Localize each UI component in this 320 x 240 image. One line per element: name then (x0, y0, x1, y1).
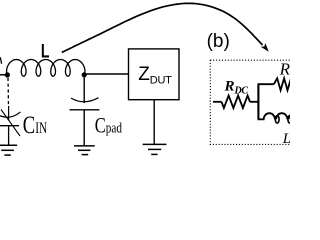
dashed model box (210, 60, 306, 144)
wire node B down to C_pad (83, 75, 85, 103)
svg-text:L: L (282, 131, 290, 147)
inductor L coil (7, 60, 85, 77)
wire C_pad to ground (83, 110, 85, 146)
node A left junction dot (5, 72, 10, 77)
inductor L model coil (264, 113, 275, 119)
wire node B to Z_DUT box (84, 73, 128, 75)
capacitor C_pad straight plate (70, 109, 100, 111)
Z_DUT box (129, 49, 180, 100)
arrowhead (261, 43, 269, 52)
wire Z_DUT box to ground (153, 100, 155, 145)
wire into R_DC (213, 101, 222, 103)
resistor R zigzag (274, 78, 291, 90)
wire R_DC to junction bar (250, 101, 258, 103)
wire to resistor R (258, 83, 274, 85)
junction bar (257, 84, 259, 118)
wire C_IN to ground (8, 126, 10, 146)
ground under Z_DUT (143, 144, 167, 154)
capacitor C_IN straight plate (0, 125, 19, 127)
capacitor C_pad curved plate (71, 98, 99, 102)
wire left stub into node (0, 74, 7, 76)
curved arrow from circuit to model (62, 3, 263, 52)
capacitor C_IN curved plate (0, 112, 21, 117)
svg-text:L: L (41, 40, 50, 62)
wire into C_IN top plate (8, 106, 10, 121)
variable capacitor arrow through C_IN (1, 110, 20, 137)
node B right junction dot (82, 72, 87, 77)
dashed wire node A to C_IN (7, 78, 10, 107)
resistor R_DC zigzag (222, 96, 251, 108)
ground under C_IN (0, 145, 17, 155)
wire cut-off mark at left edge (0, 57, 1, 64)
ground under C_pad (74, 146, 95, 155)
svg-text:(b): (b) (207, 31, 230, 52)
wire to inductor L model (258, 118, 265, 120)
svg-text:R: R (279, 60, 290, 79)
